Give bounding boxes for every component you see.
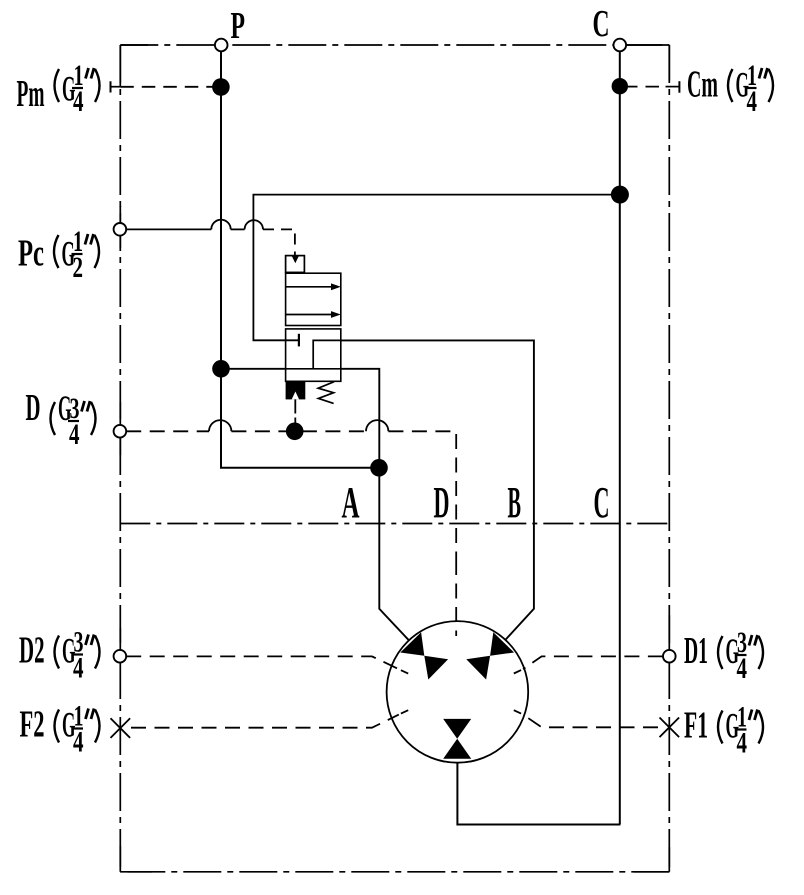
valve solenoid box xyxy=(286,381,306,399)
label D1 xyxy=(684,626,763,685)
valve spring xyxy=(318,382,334,404)
svg-text:4: 4 xyxy=(737,652,748,685)
wire C main line xyxy=(619,51,621,824)
svg-text:Cm: Cm xyxy=(687,64,718,106)
svg-text:D1: D1 xyxy=(684,630,708,672)
port Pc circle xyxy=(114,223,127,236)
valve L flow path xyxy=(313,340,341,368)
valve position 2 box xyxy=(286,329,341,381)
port D2 circle xyxy=(114,650,127,663)
enclosure border top xyxy=(120,44,669,46)
svg-text:D: D xyxy=(26,387,41,429)
wire F1 inner dash xyxy=(514,710,521,713)
wire A line: valve right to motor xyxy=(341,369,409,640)
svg-text:C: C xyxy=(594,478,610,527)
junction dot solenoid pilot on D line xyxy=(286,423,304,441)
junction dot Pm on P line xyxy=(212,78,230,96)
pilot arrowhead into valve xyxy=(291,255,299,263)
wire P main line xyxy=(221,51,379,467)
svg-text:Pm: Pm xyxy=(17,73,45,115)
enclosure border right xyxy=(668,45,670,872)
port D1 circle xyxy=(663,650,676,663)
solenoid pilot shaft xyxy=(294,399,296,413)
port D circle xyxy=(114,425,127,438)
wire D dashed into motor xyxy=(455,560,457,636)
svg-text:P: P xyxy=(231,5,246,47)
wire B line: valve right to motor xyxy=(341,340,534,639)
wire D1 inner dash xyxy=(514,670,521,673)
label F2 xyxy=(20,700,100,759)
wire F1 dashed line xyxy=(523,715,658,728)
wire F2 inner dash xyxy=(401,710,408,713)
wire D2 dashed line xyxy=(126,656,399,669)
wire Cm dashed gauge line xyxy=(624,86,666,88)
junction dot A line P join xyxy=(370,459,388,477)
svg-text:D: D xyxy=(434,478,450,527)
svg-text:Pc: Pc xyxy=(18,233,44,275)
svg-text:4: 4 xyxy=(69,418,80,451)
solenoid white arrow xyxy=(292,392,299,400)
junction dot C-rect xyxy=(611,186,629,204)
wire D dashed line with crossovers xyxy=(126,420,456,560)
bowtie top-right xyxy=(466,632,514,679)
valve through flow path xyxy=(286,368,341,370)
motor circle xyxy=(387,621,529,763)
port F1 cross xyxy=(660,718,680,738)
wire motor bottom loop to C xyxy=(457,762,620,824)
valve position 1 box xyxy=(286,273,341,325)
port Cm stub xyxy=(666,81,680,93)
section separator line xyxy=(120,523,669,525)
svg-text:4: 4 xyxy=(747,85,758,118)
label D2 xyxy=(19,626,100,685)
border solid corner segments xyxy=(120,45,669,872)
svg-text:2: 2 xyxy=(73,251,84,284)
port F2 cross xyxy=(111,718,131,738)
wire D2 inner dash xyxy=(401,670,408,673)
label Pc xyxy=(18,225,99,284)
solenoid pilot dashed link xyxy=(294,418,296,431)
svg-text:4: 4 xyxy=(73,726,84,759)
svg-text:F1: F1 xyxy=(684,705,708,747)
svg-text:A: A xyxy=(342,478,360,527)
wire valve through line left (P to valve) xyxy=(221,368,286,370)
svg-text:4: 4 xyxy=(737,727,748,760)
label Cm xyxy=(687,59,773,118)
bowtie bottom xyxy=(443,719,471,759)
valve pilot cap box xyxy=(286,256,305,273)
wire Pc pilot line with crossovers xyxy=(126,220,295,256)
port Pm stub xyxy=(111,81,121,92)
label D xyxy=(26,387,96,451)
port P circle xyxy=(215,39,228,52)
wire Pm dashed gauge line xyxy=(120,86,218,88)
valve blocked port T xyxy=(298,334,300,347)
svg-text:B: B xyxy=(508,478,522,527)
bowtie top-left xyxy=(400,632,448,679)
port C circle xyxy=(614,39,627,52)
wire D1 dashed line xyxy=(523,656,663,669)
valve flow arrow 1 xyxy=(286,283,341,290)
junction dot P on through line xyxy=(212,360,230,378)
label Pm xyxy=(17,59,100,118)
svg-text:F2: F2 xyxy=(20,703,45,745)
enclosure border left xyxy=(119,45,121,872)
svg-text:4: 4 xyxy=(73,85,84,118)
svg-text:D2: D2 xyxy=(19,629,45,671)
wire C to valve rectangle path xyxy=(253,195,620,341)
svg-text:4: 4 xyxy=(73,652,84,685)
valve flow arrow 2 xyxy=(286,311,341,318)
wire F2 dashed line xyxy=(131,715,399,728)
junction dot Cm on C line xyxy=(612,78,628,94)
enclosure border bottom xyxy=(120,871,669,873)
svg-text:C: C xyxy=(593,3,610,45)
label F1 xyxy=(684,701,763,760)
